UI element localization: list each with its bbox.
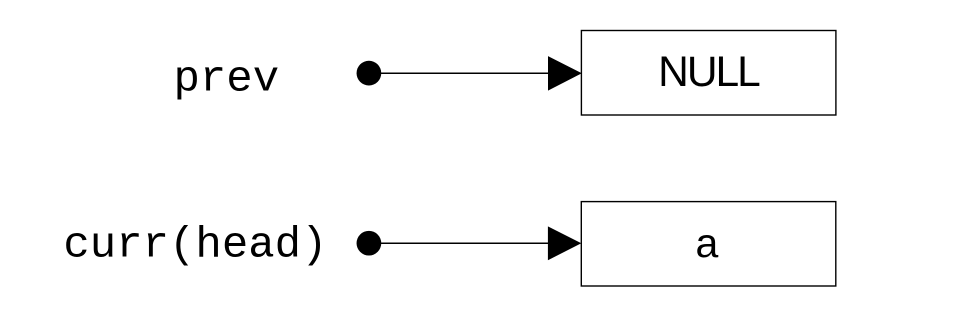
box NULL [581,31,836,116]
wire 2 [369,242,552,244]
wire 1 [369,72,552,74]
arrowhead 2 [548,226,581,260]
node dot 2 [357,231,382,256]
svg-text:curr(head): curr(head) [63,221,327,271]
svg-text:a: a [695,220,718,266]
box a [581,202,836,286]
node dot 1 [357,61,382,86]
arrowhead 1 [548,56,582,91]
svg-text:NULL: NULL [658,49,760,96]
svg-text:prev: prev [174,55,280,105]
